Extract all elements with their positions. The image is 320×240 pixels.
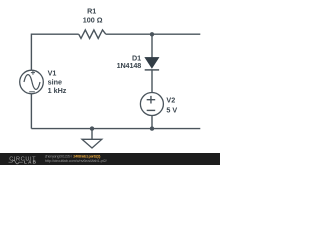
wire stub from bottom net down to ground symbol [91,129,93,140]
wire from top junction down to diode D1 anode [151,34,153,58]
svg-text:V2: V2 [166,96,175,105]
CircuitLab logo sine squiggle [9,160,23,163]
wire from diode D1 cathode down to V2 top [151,70,153,93]
wire from V1 bottom down to bottom net [30,94,32,129]
V1 sine wave symbol [24,75,40,90]
junction dot at V2 / bottom net [150,126,154,130]
V2 minus sign [147,109,156,111]
wire from resistor R1 right lead to right end of top net [106,33,201,35]
diode D1 triangle (anode, pointing down) [145,57,159,68]
svg-text:1N4148: 1N4148 [117,61,142,70]
junction dot at ground branch / bottom net [90,126,94,130]
svg-text:100 Ω: 100 Ω [83,16,103,25]
bottom net wire [31,128,200,130]
diode D1 cathode bar [145,69,159,71]
svg-text:1 kHz: 1 kHz [48,86,67,95]
V1 plus sign [31,71,35,75]
svg-text:R1: R1 [87,6,96,15]
svg-text:LAB: LAB [24,160,37,165]
ground symbol triangle [82,139,102,148]
voltage source V2 circle [140,93,163,116]
svg-text:V1: V1 [48,68,57,77]
svg-text:http://circuitlab.com/c/nv6ea4: http://circuitlab.com/c/nv6ea4/lab1-pt2/ [45,158,108,163]
watermark bar background [0,153,220,165]
voltage source V1 circle (sine source) [20,70,44,94]
svg-text:5 V: 5 V [166,105,177,114]
wire from V2 bottom down to bottom net [151,116,153,129]
V2 plus sign [147,96,156,104]
resistor R1 zigzag body [79,30,106,39]
V1 minus sign [29,91,35,93]
wire from V1 top up and right to resistor R1 left lead [31,34,78,70]
junction dot at top net / diode branch [150,32,154,36]
